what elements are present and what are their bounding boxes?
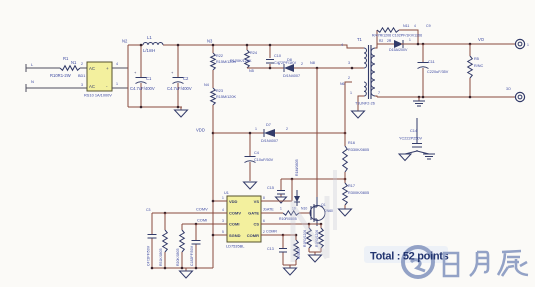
IC U1 box <box>227 196 261 242</box>
svg-text:C9: C9 <box>426 24 431 28</box>
wire secondary return <box>377 96 516 98</box>
svg-text:R5: R5 <box>474 56 479 61</box>
svg-text:R2: R2 <box>379 39 383 43</box>
svg-text:1: 1 <box>116 82 118 86</box>
svg-text:COMV: COMV <box>196 207 208 212</box>
bridge rectifier BD1 <box>87 62 112 91</box>
svg-text:D/1N4007: D/1N4007 <box>283 74 300 78</box>
wire CS pin <box>261 223 309 225</box>
svg-text:N5: N5 <box>249 69 254 73</box>
svg-text:COMV: COMV <box>229 211 241 216</box>
svg-text:N3: N3 <box>207 39 213 44</box>
svg-text:R/47R/1206 C102PF/1KV/1206: R/47R/1206 C102PF/1KV/1206 <box>372 34 422 38</box>
svg-text:N11: N11 <box>403 24 409 28</box>
svg-text:C4: C4 <box>254 151 259 155</box>
svg-text:1: 1 <box>222 196 224 200</box>
svg-text:4: 4 <box>116 62 118 66</box>
svg-text:D15A/200V: D15A/200V <box>389 48 408 52</box>
svg-text:RS10 1A/1000V: RS10 1A/1000V <box>84 93 112 98</box>
wire VS pin <box>261 200 292 202</box>
port L input <box>25 64 27 72</box>
capacitor C15 <box>280 179 282 197</box>
wire R2-R3 <box>212 70 214 88</box>
svg-text:T1UNF2-26: T1UNF2-26 <box>355 102 375 106</box>
junction dots C2 <box>177 44 180 47</box>
svg-text:C10: C10 <box>274 54 281 58</box>
resistor Rcs2 <box>320 224 322 252</box>
svg-text:GATE: GATE <box>264 208 274 212</box>
svg-text:COMI: COMI <box>197 218 207 223</box>
svg-text:5: 5 <box>222 230 224 234</box>
svg-text:N6: N6 <box>340 82 345 86</box>
resistor R24 <box>246 45 248 50</box>
transformer core <box>369 45 372 99</box>
svg-text:C11: C11 <box>428 59 435 64</box>
resistor R1 <box>60 66 80 71</box>
svg-text:N10: N10 <box>301 207 307 211</box>
svg-text:2R: 2R <box>387 39 392 43</box>
svg-text:COMR: COMR <box>247 233 259 238</box>
svg-text:C15: C15 <box>267 186 274 190</box>
wire VDD feed <box>213 132 264 134</box>
wire gate to Q1 <box>299 212 311 214</box>
svg-text:R300K/0805: R300K/0805 <box>348 191 369 195</box>
zener gate <box>294 196 300 202</box>
svg-text:C182PF/50V: C182PF/50V <box>190 245 194 266</box>
svg-text:C472PF/50V: C472PF/50V <box>147 245 151 266</box>
svg-text:3: 3 <box>348 61 350 65</box>
svg-text:D7: D7 <box>266 123 271 127</box>
svg-text:R24: R24 <box>250 51 257 55</box>
wire drain vertical <box>316 68 318 197</box>
svg-text:SGND: SGND <box>229 233 241 238</box>
svg-text:C13: C13 <box>267 247 274 251</box>
svg-text:2: 2 <box>348 76 350 80</box>
resistor R3 <box>211 88 216 105</box>
svg-text:1: 1 <box>350 91 352 95</box>
wire C14 branches <box>405 151 429 154</box>
svg-text:N: N <box>31 79 34 84</box>
svg-text:D8: D8 <box>287 58 292 62</box>
resistor R13 <box>181 224 183 268</box>
svg-text:C3: C3 <box>146 208 151 212</box>
resistor snubber <box>377 28 399 32</box>
capacitor C11 <box>422 44 424 97</box>
wire left vertical <box>127 45 129 107</box>
watermark char chen <box>498 251 528 276</box>
wire analog gnd rail <box>152 267 213 269</box>
wire COMI <box>182 223 227 225</box>
svg-text:R22: R22 <box>216 54 223 58</box>
svg-text:6: 6 <box>263 219 265 223</box>
wire sec to D9 <box>377 43 394 45</box>
watermark char ri <box>444 253 458 276</box>
svg-text:VS: VS <box>254 199 260 204</box>
svg-text:2: 2 <box>286 127 288 131</box>
node divider <box>344 178 347 181</box>
wire COMV <box>152 212 227 214</box>
wire D8 to drain node <box>294 67 352 69</box>
terminal return <box>515 92 524 101</box>
svg-text:R17: R17 <box>348 184 355 188</box>
wire R2 chain top <box>212 45 214 53</box>
svg-text:COMI: COMI <box>229 222 239 227</box>
wire snubber up <box>376 30 378 44</box>
junction dots C1 <box>140 44 143 47</box>
ground input filter <box>180 107 182 110</box>
wire aux down <box>345 82 352 146</box>
svg-text:L/1mH: L/1mH <box>143 48 155 53</box>
watermark big glyph <box>293 170 335 262</box>
transformer T1 secondary <box>371 48 375 96</box>
svg-text:3O: 3O <box>506 87 511 91</box>
svg-text:+: + <box>106 66 109 71</box>
watermark ring <box>403 247 433 277</box>
wire VS sense <box>281 178 345 180</box>
svg-text:C2: C2 <box>183 76 189 81</box>
svg-text:C220uF/35V: C220uF/35V <box>427 70 449 74</box>
wire VS drop <box>291 179 293 201</box>
svg-text:YC222P250V: YC222P250V <box>399 137 422 141</box>
transformer T1 primary <box>364 48 367 68</box>
svg-text:3: 3 <box>222 219 224 223</box>
port N input <box>25 84 27 92</box>
capacitor C14 <box>416 118 418 151</box>
ground C14 left <box>399 154 411 161</box>
wire comr gnd <box>283 265 296 268</box>
wire sec bottom stub <box>375 96 377 97</box>
capacitor C12 <box>195 224 197 268</box>
ground R17 <box>344 205 346 209</box>
svg-text:1: 1 <box>255 127 257 131</box>
svg-text:2: 2 <box>81 62 83 66</box>
svg-text:2: 2 <box>301 62 303 66</box>
wire D7 to aux <box>275 132 345 134</box>
ground COMR <box>284 268 297 275</box>
svg-text:R20K/0805: R20K/0805 <box>176 248 180 266</box>
wire snubber right <box>399 30 418 44</box>
highlight total <box>364 246 448 263</box>
svg-text:BD1: BD1 <box>78 74 85 78</box>
svg-text:4: 4 <box>341 43 343 47</box>
svg-text:C4.7uF/400V: C4.7uF/400V <box>130 86 155 91</box>
svg-text:8: 8 <box>263 196 265 200</box>
wire L to R1 <box>26 67 60 69</box>
diode D8 <box>284 64 294 72</box>
wire cs gnd <box>309 252 321 255</box>
svg-text:U1: U1 <box>224 191 229 195</box>
ground C15 <box>276 197 287 203</box>
transistor Q1 <box>310 206 312 220</box>
wire N to bridge <box>26 87 87 89</box>
svg-text:T1: T1 <box>357 37 363 42</box>
svg-text:Total : 52 points: Total : 52 points <box>370 251 449 263</box>
svg-text:R/0805: R/0805 <box>297 248 301 259</box>
ground analog <box>185 268 187 271</box>
svg-text:4: 4 <box>222 208 224 212</box>
svg-text:VO: VO <box>478 37 485 42</box>
resistor R17 <box>343 183 348 205</box>
svg-text:VDD: VDD <box>196 128 205 133</box>
resistor Rcs1 <box>308 224 310 252</box>
svg-text:R16: R16 <box>348 141 355 145</box>
svg-text:N2: N2 <box>122 39 128 44</box>
wire cap bottom rail <box>128 106 182 108</box>
capacitor C2 <box>177 45 179 107</box>
svg-text:R/NC: R/NC <box>474 64 484 68</box>
transformer T1 aux <box>364 82 366 96</box>
capacitor C13 <box>282 235 284 265</box>
svg-text:C14: C14 <box>410 128 418 133</box>
wire R1 to bridge <box>80 67 87 69</box>
svg-text:L1: L1 <box>147 35 152 40</box>
svg-text:C10uF/50V: C10uF/50V <box>254 158 274 162</box>
svg-text:R120K/120K: R120K/120K <box>230 59 252 63</box>
svg-text:R15M/120K: R15M/120K <box>216 95 237 99</box>
svg-text:1: 1 <box>527 43 529 47</box>
wire COMR pin <box>261 234 283 236</box>
svg-text:N8: N8 <box>310 61 315 65</box>
svg-text:R10R1-2W: R10R1-2W <box>50 73 71 78</box>
resistor R5 <box>469 44 471 97</box>
diode D7 <box>264 129 275 137</box>
capacitor C4 <box>249 133 251 181</box>
ground aux <box>352 111 365 118</box>
svg-text:N1: N1 <box>71 60 77 65</box>
svg-text:AC: AC <box>89 66 95 71</box>
resistor R10 <box>164 213 166 268</box>
ground C4 <box>244 182 257 189</box>
resistor gate <box>283 211 299 215</box>
terminal VO <box>515 39 524 48</box>
resistor R2 <box>211 53 216 70</box>
svg-text:C1: C1 <box>146 76 152 81</box>
svg-text:4: 4 <box>414 24 416 28</box>
svg-text:R51K/0805: R51K/0805 <box>159 248 163 266</box>
resistor comr <box>295 235 297 265</box>
svg-text:C4.7uF/400V: C4.7uF/400V <box>167 86 192 91</box>
wire output rail <box>401 43 516 45</box>
svg-text:R23: R23 <box>216 89 223 93</box>
capacitor C1 <box>140 45 142 107</box>
earth C14 right <box>423 154 435 159</box>
svg-text:1: 1 <box>278 62 280 66</box>
resistor R16 <box>343 146 348 172</box>
capacitor C3 <box>151 213 153 268</box>
svg-text:1: 1 <box>280 207 282 211</box>
wire sec top stub <box>375 44 377 48</box>
svg-text:7: 7 <box>378 91 380 95</box>
svg-text:CS: CS <box>253 222 259 227</box>
wire bridge - out <box>112 87 128 89</box>
wire GATE pin <box>261 212 283 214</box>
ground CS <box>309 255 322 262</box>
wire SGND pin <box>213 234 227 236</box>
svg-text:VDD: VDD <box>229 199 238 204</box>
wire top rail <box>128 45 364 48</box>
watermark char yue <box>470 252 488 276</box>
svg-text:R1M/0805: R1M/0805 <box>295 159 299 176</box>
svg-text:3: 3 <box>81 83 83 87</box>
svg-text:D/1N4007: D/1N4007 <box>261 139 278 143</box>
wire clamp rail <box>247 67 284 69</box>
wire pin4 stub <box>347 47 364 49</box>
earth secondary <box>418 97 420 101</box>
svg-text:R1: R1 <box>63 56 69 61</box>
wire bridge + out <box>112 67 128 69</box>
svg-text:LD7535BL: LD7535BL <box>226 244 245 249</box>
capacitor C10 <box>269 45 271 68</box>
svg-text:R330K/0805: R330K/0805 <box>348 148 369 152</box>
inductor L1 <box>143 43 163 46</box>
diode D9 <box>394 40 403 48</box>
wire CS node <box>309 223 321 225</box>
svg-text:GATE: GATE <box>248 211 259 216</box>
wire VDD pin <box>213 200 227 202</box>
svg-text:AC: AC <box>89 84 95 89</box>
svg-text:R1R0/1206: R1R0/1206 <box>303 230 307 247</box>
wire VDD vertical <box>212 105 214 268</box>
wire pin3 stub <box>352 67 364 69</box>
svg-text:1: 1 <box>409 38 411 42</box>
svg-text:COMR: COMR <box>266 230 277 234</box>
wire aux pin1 <box>358 96 364 111</box>
svg-text:N4: N4 <box>204 83 209 87</box>
svg-text:2: 2 <box>263 230 265 234</box>
